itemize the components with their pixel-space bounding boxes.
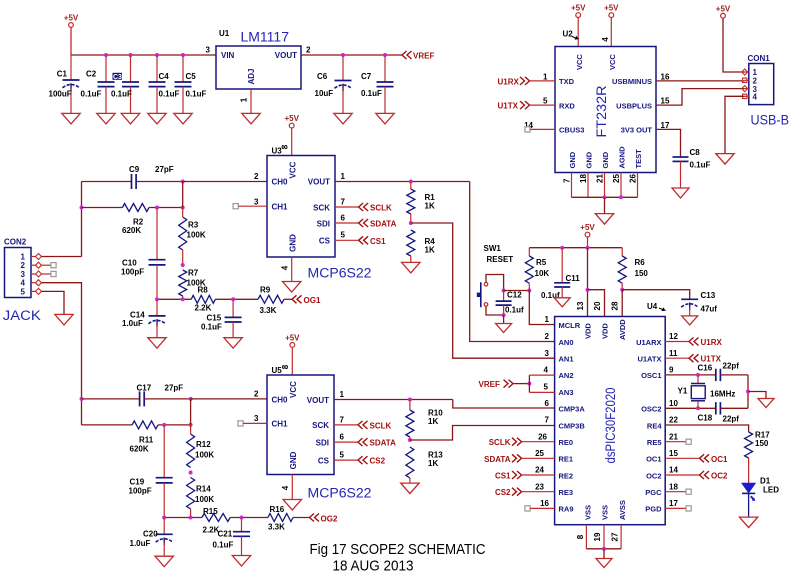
svg-text:3: 3 xyxy=(206,46,211,55)
svg-text:C4: C4 xyxy=(159,72,170,81)
ground (C20) xyxy=(155,556,173,567)
svg-text:VCC: VCC xyxy=(289,381,298,398)
wire VSS pin 19 down xyxy=(603,525,605,549)
svg-text:620K: 620K xyxy=(130,445,149,454)
svg-text:0.1uF: 0.1uF xyxy=(186,90,207,99)
svg-text:25: 25 xyxy=(535,449,544,458)
svg-text:27pF: 27pF xyxy=(165,384,184,393)
wire C1 bottom lead xyxy=(70,88,72,114)
wire R7 bottom lead xyxy=(182,296,184,299)
wire C11 bottom lead xyxy=(561,287,563,298)
connector CON1 body xyxy=(749,64,774,105)
label C3 (highlighted) xyxy=(113,73,123,80)
svg-text:SCK: SCK xyxy=(312,421,329,430)
pga U3 MCP6S22 body xyxy=(267,156,335,258)
svg-text:0.1uF: 0.1uF xyxy=(111,90,132,99)
svg-text:AVSS: AVSS xyxy=(618,500,627,520)
svg-text:SCLK: SCLK xyxy=(370,204,392,213)
junction at 106,55 xyxy=(104,53,108,57)
no-connect CON2 pin 3 xyxy=(51,271,56,276)
svg-text:Y1: Y1 xyxy=(678,386,688,395)
svg-text:PGC: PGC xyxy=(645,488,662,497)
svg-text:8: 8 xyxy=(576,534,585,539)
svg-text:AVDD: AVDD xyxy=(618,319,627,340)
svg-text:18: 18 xyxy=(579,174,588,183)
wire C15 top lead xyxy=(232,299,234,317)
svg-text:5: 5 xyxy=(543,97,548,106)
wire USBMINUS to CON1 pin2 xyxy=(656,80,745,82)
svg-text:26: 26 xyxy=(629,174,638,183)
svg-text:RA9: RA9 xyxy=(559,505,574,514)
wire R5 top lead xyxy=(528,248,530,256)
resistor R16 xyxy=(268,514,293,522)
svg-text:1.0uF: 1.0uF xyxy=(130,539,151,548)
wire R13 bottom lead xyxy=(409,478,411,483)
CON2 pin 2 terminal xyxy=(36,262,42,268)
wire +5V bus to U1 VIN xyxy=(71,54,216,56)
svg-text:14: 14 xyxy=(669,466,678,475)
svg-text:11: 11 xyxy=(669,349,678,358)
svg-text:16: 16 xyxy=(661,73,670,82)
junction at 182.7,265 xyxy=(181,263,185,267)
svg-text:1: 1 xyxy=(21,253,26,262)
wire U5 VOUT to CMP3A corner xyxy=(334,399,453,401)
+5V power symbol (U3) xyxy=(284,114,299,128)
wire AN2/AN3 bracket xyxy=(528,375,530,392)
svg-text:23: 23 xyxy=(535,482,544,491)
svg-text:8: 8 xyxy=(281,144,290,149)
svg-text:2: 2 xyxy=(254,172,259,181)
wire RE3 stub xyxy=(522,491,555,493)
capacitor C21 xyxy=(233,532,250,537)
wire rail to R11 xyxy=(82,424,133,426)
wire C12 top lead xyxy=(503,291,505,302)
net arrow VREF xyxy=(402,51,412,59)
net arrow VREF to AN2/AN3 xyxy=(504,380,514,388)
capacitor C4 xyxy=(149,82,166,87)
wire C14 to ground xyxy=(156,323,158,337)
svg-text:15: 15 xyxy=(661,97,670,106)
junction at 748,391.5 xyxy=(746,390,750,394)
svg-text:4: 4 xyxy=(281,485,290,490)
wire C9 right to CH0 node xyxy=(136,181,183,183)
svg-text:2: 2 xyxy=(21,261,26,270)
junction at 190.6,424.9 xyxy=(189,423,193,427)
svg-text:LM1117: LM1117 xyxy=(241,30,290,45)
svg-text:dsPIC30F2020: dsPIC30F2020 xyxy=(603,388,618,464)
svg-text:RE0: RE0 xyxy=(559,438,574,447)
ground (C13) xyxy=(682,316,698,325)
capacitor C19 xyxy=(156,478,173,483)
svg-text:18: 18 xyxy=(669,482,678,491)
svg-text:VDD: VDD xyxy=(601,323,610,339)
ground (C2) xyxy=(97,113,115,124)
wire C10 top lead xyxy=(156,208,158,260)
svg-text:22: 22 xyxy=(669,416,678,425)
ground (C7) xyxy=(376,113,394,124)
ground (crystal caps) xyxy=(758,399,774,408)
svg-text:17: 17 xyxy=(669,499,678,508)
net arrow CS2 to RE3 xyxy=(512,488,522,496)
svg-text:RE1: RE1 xyxy=(559,455,574,464)
svg-text:R3: R3 xyxy=(188,221,199,230)
wire U1 VOUT to C6 xyxy=(301,54,343,56)
ground (C15) xyxy=(224,338,242,349)
wire CON2 pin1 to input rail xyxy=(42,256,82,258)
svg-text:3: 3 xyxy=(254,414,259,423)
svg-text:SDI: SDI xyxy=(316,438,329,447)
wire C6 to C7 xyxy=(343,54,385,56)
svg-text:R6: R6 xyxy=(635,258,646,267)
svg-text:6: 6 xyxy=(545,399,550,408)
net arrow SDATA xyxy=(359,219,369,227)
capacitor C17 xyxy=(140,391,145,406)
wire to C13 xyxy=(622,290,690,300)
wire C17 to node xyxy=(144,398,190,400)
wire node to U3 CH0 xyxy=(183,181,267,183)
wire RE5 stub xyxy=(665,441,686,443)
wire U3 VOUT to AN0 corner xyxy=(335,181,470,183)
resistor R12 xyxy=(187,434,195,468)
svg-text:3: 3 xyxy=(21,270,26,279)
ground (C11) xyxy=(554,298,570,307)
no-connect CON2 pin 2 xyxy=(51,263,56,268)
capacitor C16 xyxy=(716,369,721,381)
wire R17 to LED xyxy=(748,458,750,483)
net arrow CS2 xyxy=(358,456,368,464)
svg-text:1: 1 xyxy=(545,315,550,324)
wire PGD stub xyxy=(665,507,686,509)
wire C6 bottom lead xyxy=(342,88,344,113)
no-connect U3 CH1 xyxy=(233,204,238,209)
svg-text:3.3K: 3.3K xyxy=(260,306,277,315)
+5V power symbol (U4) xyxy=(580,223,595,237)
wire C19 top lead xyxy=(163,425,165,478)
junction at 621,197.3 xyxy=(619,195,623,199)
svg-text:C5: C5 xyxy=(186,72,197,81)
wire U5 SCK stub xyxy=(334,424,358,426)
wire OC1 stub xyxy=(665,457,699,459)
svg-text:100K: 100K xyxy=(195,451,214,460)
junction at 587.5,247.7 xyxy=(586,246,590,250)
svg-text:SW1: SW1 xyxy=(484,244,502,253)
svg-text:R16: R16 xyxy=(270,505,285,514)
wire C14 top lead xyxy=(156,299,158,316)
wire C13 to ground xyxy=(689,307,691,316)
svg-text:10K: 10K xyxy=(535,269,550,278)
svg-text:16MHz: 16MHz xyxy=(710,389,735,398)
resistor R3 xyxy=(179,217,187,250)
resistor R4 xyxy=(407,230,415,256)
net arrow U1TX xyxy=(689,354,699,362)
svg-text:GND: GND xyxy=(601,151,610,168)
capacitor C1 xyxy=(63,80,80,91)
ground (R4) xyxy=(402,262,420,273)
wire C2 top lead xyxy=(105,55,107,82)
svg-text:VREF: VREF xyxy=(479,380,500,389)
wire VSS pin 8 down xyxy=(585,525,587,549)
junction at 183,55 xyxy=(181,53,185,57)
junction at 157,207.5 xyxy=(155,206,159,210)
svg-text:OG2: OG2 xyxy=(321,514,338,523)
wire C14/R7 node xyxy=(157,298,191,300)
junction at 622.2,289.7 xyxy=(620,288,624,292)
svg-text:VSS: VSS xyxy=(584,505,593,520)
svg-text:1.0uF: 1.0uF xyxy=(122,319,143,328)
wire U3 GND to ground xyxy=(291,257,293,282)
svg-text:C8: C8 xyxy=(690,148,701,157)
svg-text:JACK: JACK xyxy=(3,308,41,323)
wire R12 top lead xyxy=(190,425,192,434)
svg-text:RE3: RE3 xyxy=(559,488,574,497)
net arrow OC2 xyxy=(700,471,710,479)
net arrow SCLK xyxy=(359,203,369,211)
wire AN0 feed xyxy=(470,182,555,342)
svg-text:12: 12 xyxy=(669,332,678,341)
wire C21 top lead xyxy=(241,518,243,532)
junction at 164.2,517.5 xyxy=(162,516,166,520)
svg-text:2.2K: 2.2K xyxy=(195,304,212,313)
svg-text:100pF: 100pF xyxy=(129,487,152,496)
svg-text:7: 7 xyxy=(563,178,572,183)
resistor R8 xyxy=(191,295,215,303)
svg-text:U1ATX: U1ATX xyxy=(637,355,661,364)
no-connect U5 CH1 xyxy=(238,421,243,426)
connector CON2 body xyxy=(5,248,32,298)
wire input rail up (CH0 network) xyxy=(81,182,83,257)
svg-text:27pF: 27pF xyxy=(155,165,174,174)
junction at 587.5,289.7 xyxy=(586,288,590,292)
wire U3 CS stub xyxy=(335,239,359,241)
svg-text:16: 16 xyxy=(540,499,549,508)
ground (CON1) xyxy=(716,154,734,165)
svg-text:VCC: VCC xyxy=(575,54,584,70)
svg-text:RXD: RXD xyxy=(559,101,575,110)
junction at 409.9,440 xyxy=(408,438,412,442)
svg-text:C19: C19 xyxy=(130,477,145,486)
svg-text:1: 1 xyxy=(340,390,345,399)
wire +5V to U3 VCC xyxy=(291,128,293,156)
svg-text:+5V: +5V xyxy=(580,223,595,232)
svg-text:CON2: CON2 xyxy=(4,238,27,247)
svg-text:100uF: 100uF xyxy=(49,90,72,99)
junction at 157,299.3 xyxy=(155,297,159,301)
svg-text:150: 150 xyxy=(755,439,769,448)
junction at 698,374.9 xyxy=(696,373,700,377)
svg-text:R15: R15 xyxy=(203,507,218,516)
svg-text:VDD: VDD xyxy=(584,323,593,339)
svg-text:C2: C2 xyxy=(86,70,97,79)
net arrow OC1 xyxy=(700,454,710,462)
svg-text:RESET: RESET xyxy=(487,255,514,264)
svg-text:C21: C21 xyxy=(218,529,233,538)
svg-text:AN0: AN0 xyxy=(559,338,574,347)
svg-text:AN3: AN3 xyxy=(559,388,574,397)
+5V power symbol (U2 VCCIO) xyxy=(604,4,619,18)
svg-text:0.1uf: 0.1uf xyxy=(541,291,560,300)
wire C9 node to R2 node xyxy=(182,182,184,208)
no-connect U4 RE5 xyxy=(686,439,691,444)
svg-text:5: 5 xyxy=(21,287,26,296)
svg-text:SDATA: SDATA xyxy=(484,455,511,464)
wire U1ATX stub xyxy=(665,357,689,359)
svg-text:19: 19 xyxy=(593,532,602,541)
wire rail to C9 left xyxy=(82,181,132,183)
ground (U1 ADJ) xyxy=(242,113,260,124)
svg-text:5: 5 xyxy=(341,231,346,240)
junction at 241.5,517.5 xyxy=(240,516,244,520)
wire OSC2 xyxy=(665,407,716,409)
wire GND pin21 down xyxy=(604,173,606,198)
no-connect U2 CBUS3 xyxy=(525,127,530,132)
svg-text:U1RX: U1RX xyxy=(498,77,520,86)
junction at 182.7,207.5 xyxy=(181,206,185,210)
wire lower rail to C17 xyxy=(82,398,140,400)
wire rail to R2 xyxy=(82,207,123,209)
ground (CON2 pin 5) xyxy=(55,314,73,325)
wire R6 to AVDD pin 28 xyxy=(621,290,623,317)
wire CON2 pin2 stub xyxy=(42,264,52,266)
led D1 xyxy=(742,483,755,517)
svg-text:4: 4 xyxy=(21,279,26,288)
resistor R7 xyxy=(179,270,187,296)
wire R1 bottom lead xyxy=(410,214,412,223)
ground (SW1/C12) xyxy=(496,324,512,333)
svg-text:100K: 100K xyxy=(187,231,206,240)
svg-text:5: 5 xyxy=(340,451,345,460)
wire PGC stub xyxy=(665,491,686,493)
capacitor C14 xyxy=(149,316,166,327)
svg-text:+5V: +5V xyxy=(284,114,299,123)
svg-text:2: 2 xyxy=(254,390,259,399)
svg-text:1: 1 xyxy=(240,97,249,102)
svg-text:4: 4 xyxy=(544,366,549,375)
ground (R13) xyxy=(401,483,419,494)
wire C7 bottom lead xyxy=(384,87,386,114)
svg-text:OC1: OC1 xyxy=(646,455,661,464)
junction at 503.6,290.5 xyxy=(502,289,506,293)
svg-text:CBUS3: CBUS3 xyxy=(559,126,584,135)
svg-text:C17: C17 xyxy=(137,384,152,393)
svg-text:R14: R14 xyxy=(196,485,211,494)
svg-text:150: 150 xyxy=(635,269,649,278)
wire CMP3A feed xyxy=(453,400,555,409)
pga U5 MCP6S22 body xyxy=(267,375,334,475)
svg-text:7: 7 xyxy=(341,198,346,207)
resistor R10 xyxy=(406,410,414,437)
wire RXD stub xyxy=(530,104,555,106)
svg-text:GND: GND xyxy=(584,151,593,168)
no-connect U4 PGC xyxy=(686,489,691,494)
svg-text:C20: C20 xyxy=(143,529,158,538)
svg-text:SDI: SDI xyxy=(317,219,330,228)
svg-text:R11: R11 xyxy=(139,436,154,445)
svg-text:C18: C18 xyxy=(698,413,713,422)
svg-text:SDATA: SDATA xyxy=(370,439,397,448)
junction at 190.6,398.9 xyxy=(189,397,193,401)
ground (U4 VSS) xyxy=(596,559,612,568)
svg-text:1: 1 xyxy=(341,172,346,181)
usb-uart U2 FT232R body xyxy=(555,47,656,173)
svg-text:13: 13 xyxy=(576,301,585,310)
svg-text:OG1: OG1 xyxy=(304,296,321,305)
svg-text:21: 21 xyxy=(596,174,605,183)
wire crystal gnd rail xyxy=(747,375,749,408)
svg-text:U2: U2 xyxy=(563,30,574,39)
resistor R6 xyxy=(618,256,626,283)
wire C21 to ground xyxy=(241,536,243,555)
ground (C5) xyxy=(174,113,192,124)
capacitor C2 xyxy=(98,82,115,87)
resistor R2 xyxy=(122,204,149,212)
wire U3 CH1 stub xyxy=(238,205,267,207)
svg-text:10uF: 10uF xyxy=(315,89,334,98)
svg-text:PGD: PGD xyxy=(645,505,662,514)
svg-text:OC1: OC1 xyxy=(711,455,728,464)
svg-text:1K: 1K xyxy=(425,202,435,211)
wire R4 bottom lead xyxy=(410,256,412,262)
net arrow U1TX to RXD xyxy=(520,101,530,109)
svg-text:4: 4 xyxy=(601,37,610,42)
junction at 81.5,398.9 xyxy=(80,397,84,401)
svg-text:Fig 17 SCOPE2 SCHEMATIC: Fig 17 SCOPE2 SCHEMATIC xyxy=(310,541,486,558)
+5V power symbol (input rail) xyxy=(64,14,79,28)
wire U5 GND to ground xyxy=(291,475,293,500)
svg-text:0.1uF: 0.1uF xyxy=(201,322,222,331)
wire OSC1 xyxy=(665,374,716,376)
CON1 pin 1 terminal xyxy=(742,69,748,75)
capacitor C3 xyxy=(122,82,139,87)
wire C16 to gnd rail xyxy=(720,374,748,376)
svg-text:3.3K: 3.3K xyxy=(268,523,285,532)
svg-text:CH1: CH1 xyxy=(272,203,289,212)
svg-text:7: 7 xyxy=(340,415,345,424)
svg-text:7: 7 xyxy=(545,416,550,425)
wire R15 to R16 xyxy=(230,517,268,519)
wire AGND pin25 down xyxy=(620,173,622,198)
svg-text:MCP6S22: MCP6S22 xyxy=(308,486,372,501)
wire CON2 pin3 stub xyxy=(42,273,52,275)
wire +5V to VDD pin 13 xyxy=(587,248,589,317)
wire C6 top lead xyxy=(342,55,344,81)
wire TXD stub xyxy=(530,80,555,82)
wire to crystal ground xyxy=(748,392,766,399)
wire U1 ADJ to ground xyxy=(250,89,252,113)
junction at 190.6,472.5 xyxy=(189,471,193,475)
wire C10 bottom lead xyxy=(156,265,158,299)
wire U5 CS stub xyxy=(334,459,358,461)
wire +5V to CON1 pin1 xyxy=(723,18,745,72)
svg-text:RE5: RE5 xyxy=(647,438,662,447)
svg-text:CH0: CH0 xyxy=(272,395,289,404)
wire CON1 pin4 to ground xyxy=(725,96,745,153)
wire C7 top lead xyxy=(384,55,386,82)
wire U1ARX stub xyxy=(665,341,689,343)
svg-text:R8: R8 xyxy=(198,286,209,295)
svg-text:C11: C11 xyxy=(566,274,581,283)
wire R2 to R3 node xyxy=(149,207,183,209)
svg-text:24: 24 xyxy=(535,466,544,475)
wire to ground (SW1/C12) xyxy=(503,315,505,324)
no-connect U4 RA9 xyxy=(525,506,530,511)
ground (U3) xyxy=(283,282,301,293)
svg-text:C15: C15 xyxy=(207,313,222,322)
wire C15 to ground xyxy=(232,322,234,338)
wire RE0 stub xyxy=(522,441,555,443)
svg-text:OSC2: OSC2 xyxy=(641,405,661,414)
CON1 pin 4 terminal xyxy=(743,94,747,98)
svg-text:CS: CS xyxy=(318,456,330,465)
